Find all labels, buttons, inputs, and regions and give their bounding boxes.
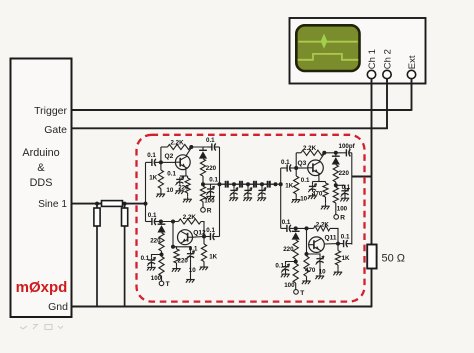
svg-text:220: 220 [206,165,217,172]
capacitor C-e3 0.1 bypass [312,182,314,185]
svg-text:100pf: 100pf [339,143,356,150]
svg-text:0.1: 0.1 [301,177,310,184]
Arduino/DDS box [11,59,72,318]
junction collector Q12 [202,235,206,239]
wire Ch 1 vertical [371,78,373,307]
ground [247,195,249,198]
terminal Ch 1 [367,70,375,78]
svg-text:2.2K: 2.2K [303,145,317,152]
svg-text:10: 10 [300,195,307,202]
diode D1 [202,147,204,150]
terminal Ext [407,70,415,78]
svg-text:0.1: 0.1 [281,159,290,166]
ground [319,274,321,277]
svg-text:470: 470 [305,267,316,274]
wire collector Q3 [319,154,324,161]
wire emitter vertical Q11 [306,228,308,254]
terminal Ch 2 [383,70,391,78]
capacitor C-top3 100pf [344,152,347,154]
dashed module boundary [137,135,365,302]
wire output rail [351,153,353,245]
wire pad resistor leg 1 [96,204,98,307]
svg-text:470: 470 [312,190,323,197]
capacitor CF3 [248,183,254,185]
svg-text:1K: 1K [342,255,350,262]
junction emitter net Q12 [171,245,175,249]
svg-text:0.1: 0.1 [167,171,176,178]
wire Gnd return [72,306,373,308]
svg-text:Q2: Q2 [165,153,174,160]
svg-text:R: R [207,207,212,214]
svg-text:1K: 1K [209,253,217,260]
svg-text:R: R [340,215,345,222]
resistor R-r2 100 [159,257,164,277]
resistor R-r3 100 [333,187,338,203]
capacitor C-e2 10 bypass [173,247,191,252]
wire Gate to Ch 2 [72,127,388,129]
ground [160,192,162,195]
screen cursor diamond [321,34,328,49]
resistor R-r1 100 [200,186,205,201]
capacitor CF-shunt3 trimmer [261,184,263,188]
ground [285,272,287,275]
diode D4 [295,228,297,231]
wire top rail Q12 [161,221,179,223]
svg-text:mØxpd: mØxpd [16,279,68,296]
wire base vertical Q12 [172,222,174,247]
junction Sine 1 node [95,202,99,206]
ground [190,277,192,280]
resistor R-fb4 2.2K [314,226,330,231]
junction collector Q2 [189,145,193,149]
wire emitter Q2 [185,168,187,177]
junction filter left [218,182,222,186]
svg-text:100: 100 [284,282,295,289]
resistor pad shunt 2 [122,208,128,226]
junction node R3 [334,183,338,187]
svg-text:100: 100 [204,198,215,205]
svg-text:0.1: 0.1 [206,227,215,234]
resistor R-c4 1K [337,244,339,251]
wire node to rail [203,183,220,185]
wire left filter rail [219,147,221,237]
junction node T4 [294,260,298,264]
svg-text:0.1: 0.1 [282,219,291,226]
svg-text:0.1: 0.1 [147,152,156,159]
svg-text:Gnd: Gnd [48,301,68,313]
ground [233,195,235,198]
capacitor CF-shunt1 trimmer [233,184,235,188]
resistor R-b3 1K [295,168,297,176]
ground [306,279,308,282]
resistor R-d3 220 [333,165,338,182]
ground [325,204,327,207]
svg-text:Q3: Q3 [298,160,307,167]
resistor R-fb3 2.2K [296,152,301,154]
svg-text:T: T [166,281,170,288]
svg-text:220: 220 [150,237,161,244]
wire input rail [145,162,147,221]
resistor R-fb1 2.2K [168,144,191,149]
wire feedback vertical [160,147,162,162]
capacitor C-in4 0.1 [281,227,287,229]
terminal T [159,281,164,286]
capacitor C-out2 0.1 [204,236,210,238]
svg-text:Ext: Ext [407,55,418,69]
capacitor C-in1 0.1 [146,161,152,163]
svg-text:100: 100 [151,275,162,282]
junction input Q11 [294,226,298,230]
svg-text:1K: 1K [149,175,157,182]
svg-text:T: T [300,290,304,297]
svg-text:0.1: 0.1 [341,233,350,240]
svg-text:10: 10 [166,187,173,194]
capacitor CF2 [234,183,240,185]
resistor R-b1 1K [160,162,162,170]
wire top rail Q11 [296,227,314,229]
junction [232,182,236,186]
svg-text:0.1: 0.1 [206,137,215,144]
wire Trigger to Ext [72,109,412,111]
terminal R right [334,215,339,220]
junction node T2 [160,253,164,257]
junction input Q12 [159,220,163,224]
capacitor C-e1 0.1 bypass [179,177,181,179]
svg-text:0.1: 0.1 [209,177,218,184]
diode D2 [161,222,163,225]
ground [295,197,297,200]
ground [203,265,205,268]
svg-text:Q11: Q11 [325,234,337,241]
transistor Q12 [178,230,193,245]
terminal T right [294,290,299,295]
wire node T2 branch [152,255,162,258]
ground [151,265,153,268]
resistor R-d1 220 [200,159,205,176]
resistor R-d2 220 [159,233,164,251]
wire emitter Q3 [318,173,320,181]
wire Sine 1 [72,203,146,205]
svg-text:2.2K: 2.2K [316,221,330,228]
ground [176,266,178,269]
svg-text:1K: 1K [285,182,293,189]
oscilloscope screen [296,25,359,71]
ground [210,194,212,197]
junction [274,182,278,186]
capacitor C-top1 0.1 [207,146,212,148]
junction [246,182,250,186]
svg-text:50 Ω: 50 Ω [382,253,406,265]
resistor R-e3 470 [325,182,327,184]
capacitor C-t4 0.1 trimmer [286,262,296,265]
capacitor C-t3 0.1 trimmer [336,185,345,188]
junction collector Q11 [336,242,340,246]
svg-text:100: 100 [337,205,348,212]
wire right filter rail [280,168,282,228]
capacitor C-e4 10 bypass [307,254,321,256]
capacitor CF-shunt2 trimmer [247,184,249,188]
svg-text:2.2K: 2.2K [171,139,185,146]
capacitor C-t2 0.1 trimmer [151,258,153,260]
svg-text:10: 10 [189,267,196,274]
wire output to Ch 1 [352,176,372,178]
wire Ext vertical [411,78,413,110]
ground [187,197,189,200]
resistor R-e1 220 [187,176,189,178]
junction emitter net Q11 [305,252,309,256]
transistor Q11 [309,237,325,253]
wire collector Q2 [186,148,191,156]
junction [260,182,264,186]
svg-text:0.1: 0.1 [189,245,198,252]
capacitor C-t1 0.1 trimmer [210,184,212,186]
svg-text:0.1: 0.1 [148,212,157,219]
ground [337,270,339,273]
svg-text:Sine 1: Sine 1 [38,199,67,210]
svg-text:Trigger: Trigger [34,105,67,117]
svg-text:0.1: 0.1 [275,262,284,269]
svg-text:220: 220 [339,170,350,177]
wire pad resistor leg 2 [124,204,126,307]
wire base Q2 [161,161,175,163]
resistor pad shunt 1 [94,208,100,226]
svg-text:0.1: 0.1 [342,184,351,191]
resistor R-e4 470 [304,256,309,276]
decor [20,324,63,330]
svg-text:220: 220 [283,246,294,253]
svg-text:2.2K: 2.2K [183,214,197,221]
terminal R [201,208,206,213]
wire Ch 2 vertical [386,78,388,129]
capacitor C-out4 0.1 [338,243,344,245]
ground [261,195,263,198]
junction collector Q3 [322,151,326,155]
ground [312,193,314,196]
resistor R-e2 220 [173,247,177,249]
wire base Q3 [296,167,308,169]
ground [344,196,346,199]
transistor Q2 [175,155,190,170]
svg-text:Ch 1: Ch 1 [367,49,378,69]
wire collector Q12 [193,236,205,239]
capacitor CF4 [262,183,267,185]
wire collector lead Q11 [324,243,338,245]
resistor R-r4 100 [293,264,298,284]
diode D3 [335,153,337,156]
junction base Q2 [159,160,163,164]
svg-text:Arduino: Arduino [22,147,59,159]
svg-text:Ch 2: Ch 2 [383,49,394,69]
ground [179,188,181,191]
capacitor CF1 [220,183,226,185]
capacitor C-in2 0.1 [146,221,152,223]
resistor pad series (horizontal) [102,201,123,207]
junction node R1 [201,182,205,186]
resistor R-load 50 ohm [367,245,376,269]
svg-text:&: & [37,162,45,174]
oscilloscope box U-scope [290,18,426,84]
wire filter line [220,183,281,185]
resistor R-c2 1K [203,237,205,245]
screen trace upper line [298,41,358,43]
screen pulse trace [298,54,359,60]
svg-text:0.1: 0.1 [141,255,150,262]
wire feedback vertical Q3 [295,153,297,168]
svg-text:220: 220 [178,185,189,192]
capacitor C-in3 0.1 [281,167,287,169]
resistor R-fb2 2.2K [178,219,201,224]
svg-text:DDS: DDS [30,177,53,189]
resistor R-d4 220 [293,240,298,259]
junction base Q3 [294,166,298,170]
transistor Q3 [308,160,324,176]
svg-text:Gate: Gate [44,124,67,136]
